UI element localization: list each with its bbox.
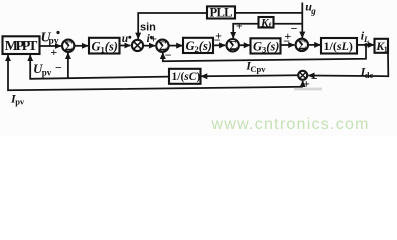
svg-text:−: − (283, 34, 290, 48)
svg-text:www.cntronics.com: www.cntronics.com (211, 116, 370, 133)
wire G1 to M1 (120, 45, 131, 47)
svg-text:1/(sL): 1/(sL) (324, 39, 353, 53)
svg-text:Σ: Σ (298, 38, 307, 53)
svg-text:Cpv: Cpv (250, 64, 266, 74)
wire 1/(sC) out Upv line to MPPT (30, 58, 169, 79)
wire G2 to S3 (213, 44, 225, 46)
wire ug vertical into S4 (301, 3, 303, 38)
svg-text:−: − (214, 33, 221, 47)
wire MPPT to S1 (40, 45, 61, 47)
svg-text:u: u (122, 33, 129, 45)
svg-text:1: 1 (384, 45, 388, 54)
block G3 (251, 38, 281, 53)
svg-text:+: + (150, 32, 157, 46)
svg-text:Σ: Σ (64, 39, 73, 54)
multiplier M1 cross (134, 42, 141, 49)
wire iL tap down and back to S2 (163, 45, 366, 61)
wire ug tee to PLL (235, 12, 302, 14)
block 1/(sL) (321, 38, 357, 54)
block G1 (89, 38, 120, 54)
wire M2 to 1/(sC) ICpv (201, 75, 298, 76)
svg-text:pv: pv (15, 97, 25, 107)
watermark smudge (294, 88, 322, 91)
svg-text:1/(sC): 1/(sC) (172, 71, 201, 83)
block MPPT (3, 36, 40, 54)
svg-text:pv: pv (42, 67, 52, 77)
multiplier M1 (132, 40, 143, 51)
svg-text:f: f (269, 21, 272, 30)
svg-text:g: g (310, 6, 316, 16)
wire PLL to sin corner down into M1 (138, 13, 207, 38)
wire S2 to G2 (169, 45, 183, 47)
summer S1 (62, 40, 74, 52)
svg-text:−: − (55, 60, 62, 74)
svg-text:Σ: Σ (229, 38, 238, 53)
wire G3 to S4 (281, 44, 295, 46)
svg-text:dc: dc (365, 70, 374, 80)
svg-text:MPPT: MPPT (5, 39, 38, 54)
svg-text:G3(s): G3(s) (253, 40, 279, 55)
svg-text:PLL: PLL (210, 6, 233, 20)
wire Kf out corner down into S3 (233, 24, 258, 37)
svg-text:G2(s): G2(s) (186, 39, 212, 54)
svg-text:+: + (50, 45, 57, 59)
svg-text:+: + (236, 19, 243, 33)
wire Ipv line and rise into MPPT (8, 58, 303, 90)
summer S3 (227, 39, 239, 51)
wire K1 down to Idc into M2 (311, 53, 389, 76)
wire M1 to S2 (144, 45, 155, 47)
multiplier M2 cross (300, 73, 306, 79)
junction iL tap (364, 43, 368, 47)
svg-text:−: − (291, 22, 298, 36)
summer M2 (298, 71, 307, 80)
block 1/(sC) (169, 69, 201, 84)
block PLL (207, 6, 235, 18)
svg-text:−: − (311, 72, 318, 86)
summer S2 (156, 40, 168, 52)
wire 1/(sL) to K1 (357, 44, 374, 46)
block Kf (259, 17, 274, 28)
wire S4 to 1/(sL) (308, 44, 320, 46)
wire Ipv rise into M2 bottom (302, 81, 304, 87)
summer S4 (296, 39, 308, 51)
wire ug tee to Kf (274, 23, 303, 25)
wire S3 to G3 (239, 44, 250, 46)
svg-text:G1(s): G1(s) (92, 39, 118, 54)
block G2 (183, 38, 213, 53)
wire Upv tee up into S1 (67, 53, 69, 78)
svg-text:L: L (363, 34, 369, 44)
block K1 (375, 39, 389, 53)
wire S1 to G1 (75, 45, 88, 47)
svg-text:−: − (165, 48, 172, 62)
